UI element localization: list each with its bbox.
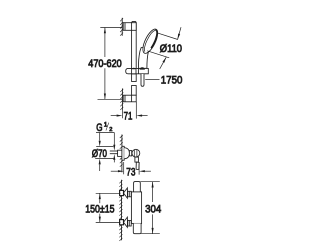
svg-text:73: 73 — [126, 166, 135, 178]
dimension &#216;110 (head diameter) — [147, 27, 181, 69]
svg-text:Ø70: Ø70 — [92, 148, 107, 160]
svg-text:1750: 1750 — [161, 75, 183, 87]
thermostat knob (side view) — [132, 149, 140, 157]
spray face rim band — [151, 29, 158, 49]
top rail bracket — [123, 23, 136, 31]
svg-text:304: 304 — [145, 203, 161, 215]
hand shower head — [140, 27, 161, 55]
wall at bottom rail bracket — [120, 88, 123, 110]
svg-text:71: 71 — [124, 111, 133, 123]
dimension 150&#177;15 (union spacing) — [96, 193, 121, 222]
svg-text:G: G — [96, 122, 102, 134]
shower holder on bar — [126, 67, 149, 73]
hose end below holder — [141, 74, 144, 86]
dimension 470-620 (rail bracket spacing) — [98, 28, 123, 100]
dimension 73 (wall to knob) — [111, 162, 151, 175]
wall (front view) — [119, 180, 122, 241]
dimension 304 (body height) — [140, 182, 160, 234]
thermostat body (front view) — [131, 182, 141, 234]
dimension &#216;70 (escutcheon) — [95, 133, 113, 172]
G 1/2 thread label and leader — [96, 133, 115, 163]
supply pipe behind wall — [110, 150, 122, 156]
shut-off lever below knob — [135, 157, 139, 169]
svg-text:1: 1 — [104, 122, 108, 129]
svg-text:470-620: 470-620 — [88, 58, 121, 70]
lower supply union — [120, 217, 132, 227]
escutcheon flange (side view) — [122, 146, 132, 160]
upper supply union — [120, 188, 132, 198]
svg-text:2: 2 — [109, 127, 112, 133]
wall (side view) — [120, 135, 123, 173]
hand shower handle — [139, 47, 150, 68]
slide bar — [132, 21, 137, 95]
svg-text:150±15: 150±15 — [85, 204, 114, 216]
wall at top rail bracket — [120, 18, 123, 36]
bottom rail bracket — [123, 95, 136, 102]
svg-text:Ø110: Ø110 — [160, 43, 182, 55]
dimension 71 (wall to bar) — [111, 102, 148, 119]
dimension 1750 (hose length) — [145, 79, 159, 81]
